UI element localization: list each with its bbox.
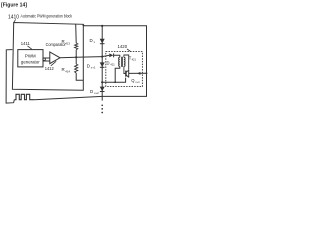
label R414 (62, 67, 71, 73)
svg-text:413: 413 (65, 41, 70, 45)
wire secondary top to transistor collector (124, 55, 129, 70)
label Qx+1 (131, 78, 140, 84)
1420 bottom return wire (102, 78, 125, 83)
svg-text:1412: 1412 (45, 66, 54, 71)
svg-text:x+1: x+1 (135, 80, 140, 84)
diode string vertical wire (101, 26, 103, 101)
resistor chain top wire (75, 24, 78, 43)
svg-text:421: 421 (110, 62, 115, 66)
square wave symbol (14, 94, 34, 99)
svg-text:421: 421 (132, 58, 137, 62)
resistor R414 (75, 64, 78, 73)
node dot right rail (146, 72, 148, 74)
dashed box 1420 (106, 52, 143, 87)
label 1412 (45, 66, 54, 71)
transformer T421 primary winding (119, 57, 120, 66)
leader 1412 to comparator (51, 61, 56, 66)
svg-text:1420: 1420 (118, 44, 128, 50)
continuation dots (101, 104, 103, 113)
transistor output wire to right rail (129, 72, 147, 74)
resistor R413 (75, 43, 78, 50)
label R413 (62, 39, 71, 45)
leader from 1410 caption to block corner (14, 19, 16, 22)
diode Dx+2 (100, 87, 105, 92)
node dot comparator output / divider (75, 56, 77, 58)
node dot primary return (114, 81, 116, 83)
label 1411 (21, 41, 30, 46)
svg-text:Automatic PWM generation block: Automatic PWM generation block (21, 14, 73, 19)
wire PWM to comparator lower input (43, 60, 50, 62)
wire primary bottom to return (115, 66, 120, 82)
comparator U1412 triangle (50, 52, 60, 64)
wire R413 to node (75, 50, 77, 58)
diode Dx (100, 39, 105, 44)
junction dot top rail (101, 25, 103, 27)
svg-text:1410: 1410 (8, 14, 19, 20)
transformer T421 secondary winding (124, 57, 125, 66)
svg-text:R: R (62, 67, 65, 72)
bottom wire to diode string junction (34, 96, 102, 99)
label Dx+1 (87, 64, 96, 70)
svg-text:PWM: PWM (25, 53, 36, 58)
node dot comparator line / diode string (101, 56, 103, 58)
top rail wire to right side (83, 24, 147, 96)
wire node to diode Dxx (102, 55, 109, 56)
label T421 (129, 56, 137, 62)
current arrow on output wire (137, 72, 140, 75)
label Comparator (46, 42, 67, 47)
comparator output wire to node (60, 57, 102, 58)
junction at rail step (83, 25, 85, 27)
PWM generator box U1411 (18, 50, 43, 67)
svg-text:x+1: x+1 (91, 66, 96, 70)
leader 1420 to dashed box (127, 49, 131, 52)
wire secondary bottom to transistor base (124, 66, 126, 73)
wire diode to transformer primary (114, 55, 120, 57)
diode Dx+1 (100, 62, 105, 67)
transformer core (121, 57, 122, 67)
svg-text:D: D (90, 89, 93, 94)
label Dxx (107, 60, 116, 66)
block 1410 box (12, 23, 83, 91)
label Dx+2 (90, 89, 99, 95)
leader 1411 to PWM box (28, 46, 32, 49)
figure title (1, 2, 27, 8)
svg-text:x+2: x+2 (94, 91, 99, 95)
output bubble of PWM generator (43, 58, 46, 61)
svg-text:1411: 1411 (21, 41, 30, 46)
svg-text:generator: generator (21, 60, 40, 65)
node dot 1420 return / diode string (101, 81, 103, 83)
wire R414 bottom to block edge (76, 73, 83, 80)
svg-text:x: x (94, 40, 96, 44)
wire PWM to comparator upper input (43, 57, 50, 59)
caption 1410 Automatic PWM generation block (8, 14, 73, 21)
transistor Qx+1 (126, 70, 129, 78)
svg-text:D: D (107, 60, 110, 65)
svg-text:R: R (62, 39, 65, 44)
wire left side from block down (6, 50, 14, 104)
svg-text:D: D (87, 64, 90, 69)
svg-text:414: 414 (65, 69, 70, 73)
diode Dxx (series, pointing right) (109, 53, 113, 57)
svg-text:[Figure 14]: [Figure 14] (1, 2, 27, 8)
label Dx (90, 38, 96, 44)
svg-text:D: D (90, 38, 93, 43)
label 1420 (118, 44, 128, 50)
wire node to R414 (75, 57, 77, 64)
